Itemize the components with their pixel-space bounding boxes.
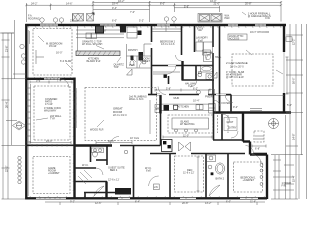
porch label (221, 114, 223, 140)
garage right wall upper (283, 24, 285, 52)
svg-text:14'-8": 14'-8" (293, 134, 296, 140)
bath3 walls (195, 66, 197, 81)
bottom exterior wall (25, 197, 267, 199)
dark floor box (164, 75, 167, 78)
cased opening arc den (252, 155, 261, 164)
skylight boxes pair left (73, 14, 94, 22)
bottom dim ticks and text (60, 202, 257, 205)
oven black (164, 105, 170, 111)
svg-text:7'-4": 7'-4" (57, 79, 62, 82)
svg-text:11'-0": 11'-0" (183, 134, 189, 137)
svg-text:PWDR: PWDR (205, 96, 213, 99)
svg-text:5'-2": 5'-2" (139, 20, 144, 23)
media wall black (162, 140, 173, 152)
bath fixtures lower-left (92, 148, 128, 157)
left wall inner line (27, 30, 29, 196)
svg-text:KITCHEN: KITCHEN (178, 106, 189, 109)
bedroom1 dashed ceiling (234, 162, 263, 192)
kitchen counter band (161, 103, 213, 105)
svg-text:16'-8": 16'-8" (100, 30, 106, 33)
svg-text:44'-2": 44'-2" (118, 0, 124, 3)
svg-text:5'-8": 5'-8" (166, 87, 171, 90)
porch step lines (255, 135, 264, 137)
svg-text:TOP: TOP (114, 66, 119, 69)
svg-text:6'-0 SLDR: 6'-0 SLDR (60, 60, 72, 63)
svg-text:W/ SEATING: W/ SEATING (180, 123, 195, 126)
fridge black (139, 52, 144, 61)
patio lower edge line (26, 144, 74, 146)
hallway lower wall y94.5 openings (157, 94, 226, 96)
left window double lines (30, 84, 32, 143)
svg-text:11'-6 x 12': 11'-6 x 12' (183, 172, 195, 175)
svg-text:16'x7' OH DOOR: 16'x7' OH DOOR (250, 31, 269, 34)
svg-text:6'-0": 6'-0" (112, 20, 117, 23)
powder room fixtures (142, 60, 146, 64)
svg-text:MUD: MUD (174, 97, 180, 100)
interior kitchen/greatroom boundary dims (149, 100, 151, 134)
top dim tick slashes (25, 1, 282, 6)
island hatched (76, 51, 120, 56)
entry step walls right (242, 113, 244, 142)
pantry cluster (127, 44, 152, 68)
linen box (203, 50, 211, 55)
svg-text:12'-6 x 11': 12'-6 x 11' (108, 179, 120, 182)
svg-text:20'-8": 20'-8" (245, 3, 251, 6)
svg-text:24'-0": 24'-0" (46, 140, 52, 143)
kitchen left boundary line (77, 26, 79, 51)
bedroom2 walls (151, 25, 153, 42)
section diamond marker (13, 121, 26, 130)
svg-text:9'-6": 9'-6" (36, 79, 41, 82)
svg-text:15'x14': 15'x14' (49, 45, 57, 48)
master bedroom ceiling dashed (33, 29, 72, 76)
left dimension lines (2, 20, 27, 199)
svg-text:19'-4": 19'-4" (112, 3, 118, 6)
svg-text:13'-0 x 11'-6: 13'-0 x 11'-6 (161, 43, 175, 46)
svg-text:HALL: HALL (215, 56, 222, 59)
svg-text:21'-0": 21'-0" (214, 2, 220, 5)
lower-left room dashed ceiling (33, 157, 70, 194)
bath2 wall (227, 154, 229, 199)
niche boxes entry (209, 90, 215, 95)
entry hall walls x213-243 (230, 95, 232, 113)
top exterior wall (25, 24, 286, 26)
wall oven dark (120, 26, 126, 33)
bath2 black box (211, 172, 214, 175)
laundry sink circle (198, 26, 203, 31)
hall top wall (152, 65, 214, 67)
svg-text:@ 18" O.C.E.W.: @ 18" O.C.E.W. (226, 76, 244, 79)
svg-text:15'-4": 15'-4" (293, 176, 296, 182)
svg-text:+CARPET: +CARPET (243, 179, 255, 182)
svg-text:PANTRY: PANTRY (128, 49, 138, 52)
svg-text:WALL U.N.O.: WALL U.N.O. (129, 98, 144, 101)
svg-text:7'-0": 7'-0" (130, 11, 135, 14)
top dimension line A (upper) (26, 1, 281, 22)
misc interior door arcs great room (60, 79, 69, 88)
wic diagonals (78, 170, 92, 184)
kitchen island-dining dashed ceiling (168, 115, 213, 133)
kitchen sink (196, 105, 203, 110)
stacked circles door symbol (18, 156, 21, 183)
range black (95, 26, 104, 34)
bedroom2 door arc (176, 55, 182, 61)
svg-text:TYP.: TYP. (50, 118, 56, 121)
garage left wall (219, 25, 221, 112)
svg-text:LIN: LIN (203, 52, 207, 55)
svg-text:ROOFING: ROOFING (28, 17, 40, 20)
svg-text:W/ FULL SPLASH: W/ FULL SPLASH (82, 43, 103, 46)
wall y153.5 lower zone (150, 153, 176, 155)
svg-text:BATH 2: BATH 2 (216, 178, 225, 181)
svg-text:8'-0": 8'-0" (160, 2, 165, 5)
den walls (169, 154, 171, 199)
master bottom wall (25, 78, 75, 80)
foyer ceiling dashed (217, 115, 219, 133)
svg-text:10'-4": 10'-4" (193, 100, 199, 103)
svg-text:9'-2": 9'-2" (233, 106, 238, 109)
svg-text:FOYER: FOYER (222, 102, 231, 105)
top-left corner line (0, 32, 14, 34)
door arcs hall (168, 66, 176, 74)
bedroom2 closet (152, 28, 181, 30)
wall x160.5 foyer-side (159, 94, 161, 114)
bath3 tub (201, 66, 213, 73)
garage ceiling dashed rect (232, 54, 273, 86)
svg-text:LIN: LIN (154, 186, 158, 189)
svg-text:WOOD FLR: WOOD FLR (90, 129, 104, 132)
svg-text:13'-2": 13'-2" (205, 202, 211, 205)
great room dashed ceiling (85, 88, 157, 141)
svg-text:5'-0": 5'-0" (287, 104, 292, 107)
svg-text:12'-6": 12'-6" (95, 202, 101, 205)
svg-text:22'-0 x 19'-0: 22'-0 x 19'-0 (113, 114, 127, 117)
grid bubbles row (40, 17, 176, 22)
french door triangles (179, 142, 191, 151)
garage attic note box (228, 34, 247, 40)
wall x74 vertical (73, 78, 75, 200)
garage bottom wall (213, 111, 291, 113)
door arcs lower (110, 137, 119, 146)
diagonal door bath4 (94, 186, 104, 196)
left rotated dims text (6, 46, 9, 172)
kitchen to garage hall walls (219, 95, 221, 113)
small black symbol (92, 13, 95, 16)
bath2 diagonal door (209, 185, 220, 196)
svg-text:+CARPET: +CARPET (48, 172, 60, 175)
svg-text:6'-2": 6'-2" (193, 87, 198, 90)
bed black bottom (115, 188, 131, 195)
left grid bubble (20, 44, 24, 48)
entry dims (252, 145, 266, 148)
svg-text:9'-4": 9'-4" (112, 7, 117, 10)
svg-text:WALKWAY: WALKWAY (44, 110, 57, 113)
svg-text:W.I.C.: W.I.C. (82, 164, 89, 167)
svg-text:17'x10': 17'x10' (45, 103, 53, 106)
svg-text:ISLAND 9'x4': ISLAND 9'x4' (86, 60, 101, 63)
svg-text:F.W.: F.W. (282, 185, 287, 188)
equipment pad boxes right (two X panels) (198, 14, 222, 23)
svg-text:6'x6': 6'x6' (146, 170, 152, 173)
svg-text:10' CLG: 10' CLG (130, 137, 139, 140)
bath3 toilet (198, 73, 202, 77)
svg-text:ACCESS: ACCESS (229, 38, 240, 41)
svg-text:2 CAR GARAGE: 2 CAR GARAGE (226, 61, 248, 65)
washer dryer (204, 42, 213, 52)
outlets column bedroom1 (260, 164, 263, 186)
kitchen counter along top (76, 27, 137, 39)
svg-text:22'-0": 22'-0" (6, 166, 9, 172)
bath2 fixtures (207, 155, 225, 174)
svg-text:14'-6": 14'-6" (66, 3, 72, 6)
left exterior wall (25, 24, 27, 200)
svg-text:BED 4: BED 4 (110, 169, 118, 172)
svg-text:PAD: PAD (225, 17, 230, 20)
svg-text:20'-8": 20'-8" (182, 202, 188, 205)
interior dim ticks cluster 1 (155, 89, 210, 92)
svg-text:F.W.: F.W. (265, 17, 270, 20)
svg-text:20'-0 x 20'-0: 20'-0 x 20'-0 (230, 66, 244, 69)
svg-text:5'-6": 5'-6" (184, 5, 189, 8)
svg-text:12'-2": 12'-2" (293, 39, 296, 45)
svg-text:ENTRY: ENTRY (228, 127, 237, 130)
garage right wall lower (283, 93, 285, 113)
right dimension lines (271, 24, 307, 199)
svg-text:21'-6": 21'-6" (6, 46, 9, 52)
svg-text:6'-8": 6'-8" (255, 148, 260, 151)
cooktop dark (174, 105, 178, 109)
closet sliding line (153, 71, 180, 73)
svg-text:16'-0": 16'-0" (56, 52, 62, 55)
porch circle symbol (269, 119, 279, 129)
den dashed ceiling (175, 156, 204, 192)
svg-text:24'-2": 24'-2" (31, 3, 37, 6)
window gaps on top wall (40, 24, 266, 26)
lower rooms cluster walls (90, 146, 92, 163)
laundry walls (194, 25, 196, 52)
svg-text:16'-0": 16'-0" (293, 78, 296, 84)
dim ticks under master wall (30, 81, 72, 84)
garage door step (250, 108, 262, 110)
bath3 door arc (190, 80, 197, 87)
black window post (138, 31, 142, 36)
svg-text:26'-4": 26'-4" (6, 102, 9, 108)
master bottom wall to x160 (75, 144, 113, 146)
interior dim ticks cluster 2 (163, 136, 212, 139)
bath3 vanity (206, 74, 213, 80)
garage door opening right (283, 52, 285, 93)
